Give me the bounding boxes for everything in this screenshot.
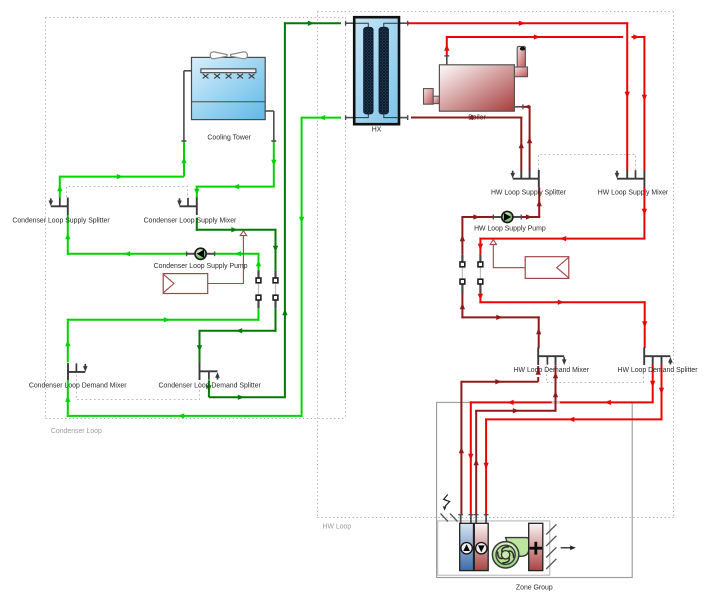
svg-text:HW Loop Demand Splitter: HW Loop Demand Splitter [617,367,698,374]
setpoint manager: HW loop SPM with signal line [490,240,569,279]
component: Cooling Tower [181,52,276,141]
wire: zone heating coil return to HW demand mixer (dark red) [474,365,559,514]
dashed bracket: HW supply branch group [539,155,636,171]
wire: HX hot outlet to HW supply mixer (bright red) [408,21,630,171]
wire: zone blue coil return to HW demand mixer (dark red) [459,366,541,515]
svg-text:HX: HX [372,127,382,134]
zone unit: inlet duct hatch marks [441,514,458,522]
wire: HW demand splitter branch 2 to zone heating coil (bright red) [483,365,664,515]
dashed bracket: condenser demand branch group [77,375,200,400]
component: HX heat exchanger [346,17,408,124]
dashed boundary: HW Loop box [318,12,674,518]
wire: condenser return riser to HX hot-side inlet (dark green) [206,21,341,400]
svg-text:Condenser Loop Supply Pump: Condenser Loop Supply Pump [154,263,248,270]
zone unit: availability zigzag arrow [443,495,450,511]
zone unit: supply fan [492,538,528,568]
svg-text:Condenser Loop: Condenser Loop [51,428,102,435]
svg-text:HW Loop Supply Splitter: HW Loop Supply Splitter [491,190,567,197]
wire: HX hot-side return to HW supply splitter (dark red) [411,115,524,170]
svg-text:HW Loop Supply Pump: HW Loop Supply Pump [474,226,546,233]
wire: HX cold outlet down and to demand mixer bottom (bright green) [65,115,341,419]
wire: supply splitter outlet to pump suction (bright green) [65,215,187,256]
dotted separator line / HW Loop box bottom [318,517,674,519]
zone group outer box [437,402,633,577]
svg-text:Condenser Loop Demand Mixer: Condenser Loop Demand Mixer [29,382,127,389]
wire: supply pipe to demand mixer top (bright green) [65,308,259,362]
splitter: Condenser Loop Supply Splitter [49,198,68,216]
zone unit: heating coil with plus [529,523,543,570]
wire: boiler return overlap segment (dark red) [440,117,514,119]
wire: HW supply splitter through pump (dark red) [460,187,542,254]
splitter: HW Loop Demand Splitter [644,347,672,365]
wire: HW supply mixer outlet to demand-side pipe (bright red) [478,187,647,254]
svg-text:Cooling Tower: Cooling Tower [207,134,251,141]
wire: boiler outlet to HW supply mixer with crossover gap (bright red) [444,34,647,170]
svg-text:HW Loop Demand Mixer: HW Loop Demand Mixer [514,367,590,374]
zone unit: hot water coil (red) [474,523,488,570]
wire: boiler return to HW supply splitter (dark red) [523,105,532,171]
wire: cooling tower outlet to supply mixer (bright green) [194,141,276,198]
splitter: Condenser Loop Demand Splitter [200,363,220,381]
svg-text:HW Loop: HW Loop [323,524,352,531]
svg-text:Condenser Loop Demand Splitter: Condenser Loop Demand Splitter [159,382,262,389]
zone unit: chilled water coil (blue) [460,523,474,570]
pump: HW Loop Supply Pump [493,211,521,222]
pipe component: HW supply branch pipe [460,254,465,293]
dashed bracket: HW demand branch group [547,366,644,383]
wire: pump discharge to supply pipe (bright green) [214,251,261,270]
wire: supply mixer outlet to demand splitter (dark green) [196,218,278,364]
svg-text:Condenser Loop Supply Mixer: Condenser Loop Supply Mixer [144,217,237,224]
component: Boiler [424,46,528,111]
pipe component: HW demand connector pipe [478,254,483,293]
pump: Condenser Loop Supply Pump [187,248,215,259]
zone unit: outlet air arrow [561,546,576,551]
dashed bracket: condenser supply branch group [67,187,188,198]
svg-text:HW Loop Supply Mixer: HW Loop Supply Mixer [598,190,669,197]
wire: supply splitter to cooling tower inlet (bright green) [57,174,184,198]
setpoint manager: condenser loop SPM with signal line [163,231,246,294]
wire: demand pipe to HW demand splitter (bright red) [478,294,648,348]
zone unit: outlet hatch marks [546,524,556,569]
splitter: HW Loop Supply Splitter [510,170,538,188]
mixer: Condenser Loop Supply Mixer [177,198,197,216]
pipe component: condenser supply branch pipe [256,270,261,308]
svg-text:Zone Group: Zone Group [516,585,553,592]
wire: HW demand splitter branch 1 to zone blue coil (bright red) [468,365,655,515]
mixer: HW Loop Demand Mixer [538,347,566,365]
zone air unit duct box [438,521,550,575]
zone unit: coil connection stubs [458,515,488,524]
mixer: Condenser Loop Demand Mixer [68,363,88,381]
mixer: HW Loop Supply Mixer [615,170,645,188]
dashed boundary: Condenser Loop box [46,18,346,419]
wire: cooling tower inlet drop (bright green) [181,141,186,177]
wire: supply pipe to HW demand mixer top (dark red) [460,294,542,349]
pipe component: condenser demand connector pipe [273,270,278,308]
svg-text:Condenser Loop Supply Splitter: Condenser Loop Supply Splitter [12,217,110,224]
